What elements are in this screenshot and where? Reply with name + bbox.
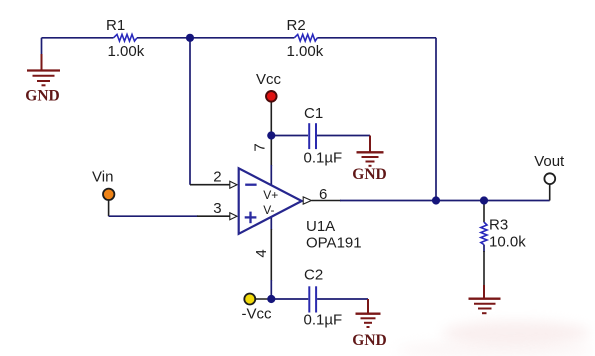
op-amp minus mark — [245, 184, 256, 186]
svg-text:1.00k: 1.00k — [108, 43, 145, 60]
wire Vout riser — [549, 184, 551, 200]
junction node output rail — [432, 196, 440, 204]
svg-text:GND: GND — [352, 166, 386, 183]
svg-text:0.1µF: 0.1µF — [304, 150, 343, 167]
op-amp plus mark — [245, 212, 257, 224]
ground C2 — [356, 299, 381, 327]
svg-text:V+: V+ — [263, 188, 278, 202]
capacitor C1 — [309, 123, 316, 149]
svg-text:R1: R1 — [106, 17, 125, 34]
wire pin2 stub — [190, 184, 230, 186]
wire pin4 lower — [270, 280, 272, 299]
wire inverting node vertical — [189, 38, 191, 185]
wire output to right rail — [340, 200, 436, 202]
svg-text:0.1µF: 0.1µF — [304, 311, 343, 328]
svg-text:7: 7 — [252, 143, 269, 151]
junction node -Vcc — [267, 295, 275, 303]
ground C1 — [357, 136, 384, 166]
svg-text:GND: GND — [25, 88, 59, 105]
ground left (input) — [27, 54, 60, 85]
svg-text:-Vcc: -Vcc — [242, 306, 273, 323]
pin 3 arrow — [230, 213, 237, 220]
svg-text:OPA191: OPA191 — [306, 235, 362, 252]
wire top right (R2 to right rail) — [317, 37, 436, 39]
wire R3 node to Vout — [484, 200, 550, 202]
wire C1 to ground — [317, 135, 370, 137]
wire pin4 — [270, 217, 272, 230]
wire R3 top lead — [483, 201, 485, 223]
wire Vcc node to C1 — [271, 135, 308, 137]
ground R3 — [469, 285, 501, 313]
wire R3 bottom lead lower — [483, 251, 485, 287]
terminal Vin — [103, 189, 114, 200]
pin 6 arrow — [303, 197, 311, 204]
pin 2 arrow — [230, 181, 237, 188]
svg-text:Vin: Vin — [92, 169, 113, 186]
wire Vin to pin3 — [109, 215, 198, 217]
svg-text:3: 3 — [213, 200, 221, 217]
capacitor C2 — [309, 286, 316, 312]
svg-text:R2: R2 — [287, 17, 306, 34]
watermark smudge bottom right — [395, 321, 595, 356]
wire C2 to ground — [317, 298, 368, 300]
wire left ground drop — [41, 38, 43, 56]
junction node R3 — [480, 196, 488, 204]
svg-text:10.0k: 10.0k — [489, 233, 526, 250]
junction node Vcc — [267, 131, 275, 139]
resistor R3 — [481, 222, 487, 245]
svg-text:C1: C1 — [304, 105, 323, 122]
resistor R1 — [114, 34, 138, 41]
wire Vcc drop — [270, 103, 272, 136]
wire pin7 — [270, 136, 272, 167]
svg-text:Vout: Vout — [534, 153, 565, 170]
wire right rail vertical — [435, 38, 437, 201]
wire Vin vertical stub — [108, 201, 110, 217]
op-amp U1 triangle — [239, 168, 302, 234]
wire -Vcc stub — [255, 298, 271, 300]
wire top-left horizontal — [42, 37, 114, 39]
svg-text:2: 2 — [213, 168, 221, 185]
svg-text:V-: V- — [263, 203, 274, 217]
svg-text:C2: C2 — [304, 267, 323, 284]
svg-text:Vcc: Vcc — [256, 71, 282, 88]
svg-text:4: 4 — [253, 249, 270, 257]
terminal -Vcc — [244, 294, 255, 305]
wire pin3 stub — [197, 215, 230, 217]
wire pin7 lower — [270, 165, 272, 185]
resistor R2 — [294, 34, 317, 41]
terminal Vout — [544, 173, 555, 184]
junction node R1-R2 — [186, 34, 194, 42]
wire R3 bottom lead — [483, 245, 485, 253]
svg-text:GND: GND — [352, 332, 386, 349]
svg-text:R3: R3 — [489, 217, 508, 234]
svg-text:U1A: U1A — [306, 218, 335, 235]
svg-text:1.00k: 1.00k — [287, 43, 324, 60]
wire pin4 middle — [270, 229, 272, 281]
wire output pin stub — [312, 200, 342, 202]
wire top middle (R1 to R2) — [137, 37, 294, 39]
wire output node to R3 node — [436, 200, 484, 202]
terminal Vcc — [266, 91, 277, 102]
svg-text:6: 6 — [319, 186, 327, 203]
wire -Vcc node to C2 — [271, 298, 308, 300]
